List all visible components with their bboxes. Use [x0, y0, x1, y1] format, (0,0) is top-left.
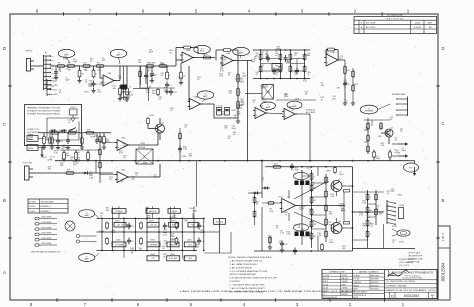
ground — [280, 248, 284, 253]
resistor R26 — [99, 135, 102, 143]
node 2 AMP — [233, 47, 250, 55]
node 9 AMP — [79, 254, 95, 262]
pot box C43 .02 — [147, 222, 159, 227]
ground — [268, 245, 272, 250]
pa mid column — [311, 170, 313, 248]
resistor R24 — [87, 151, 90, 161]
svg-text:CR14: CR14 — [47, 159, 52, 161]
svg-text:CR48: CR48 — [181, 156, 186, 158]
capacitor C12 — [144, 73, 153, 80]
capacitor C16 — [95, 137, 104, 144]
svg-text:R1-R79: R1-R79 — [323, 278, 329, 280]
wire drop x58 — [57, 133, 59, 138]
resistor R54 — [272, 164, 282, 169]
capacitor C10 — [197, 238, 206, 245]
wire tone in leader — [95, 161, 99, 219]
wire U4 out — [201, 103, 214, 105]
diode D3 — [59, 129, 67, 132]
ground — [165, 89, 169, 94]
reverb return arrows — [392, 143, 398, 145]
svg-text:MUSICAL INSTRUMENTS: MUSICAL INSTRUMENTS — [393, 271, 433, 275]
svg-text:.03: .03 — [394, 139, 397, 141]
svg-text:DOUBLE FOOTSWITCH POWER: DOUBLE FOOTSWITCH POWER — [27, 111, 61, 113]
electrolytic cap dark C7 — [121, 85, 134, 98]
svg-text:REVERB (-): REVERB (-) — [41, 211, 51, 213]
svg-text:R63: R63 — [191, 225, 194, 227]
svg-text:CR52: CR52 — [177, 77, 182, 79]
wire x123 drop — [123, 66, 125, 100]
zone ticks left — [8, 86, 12, 238]
resistor R14 — [237, 73, 244, 83]
svg-text:.08: .08 — [305, 93, 308, 95]
op-amp U2A — [180, 49, 195, 63]
svg-text:WITH NO SIGNAL APPLIED.: WITH NO SIGNAL APPLIED. — [230, 273, 257, 276]
resistor R79 — [179, 132, 182, 140]
svg-text:CR32: CR32 — [140, 143, 145, 145]
svg-text:P.C. BD: P.C. BD — [354, 279, 361, 281]
ps notes text — [408, 252, 424, 264]
op-amp U1A — [101, 72, 116, 86]
pot box PULL BRT — [167, 256, 180, 261]
resistor R76 — [157, 88, 160, 96]
capacitor C20 — [284, 55, 288, 62]
svg-text:P3: P3 — [52, 65, 54, 67]
svg-text:POSITION.: POSITION. — [230, 281, 241, 283]
svg-text:OUTPUT JACK: OUTPUT JACK — [408, 252, 421, 255]
svg-text:.03: .03 — [145, 209, 148, 211]
resistor R75 — [139, 70, 142, 78]
svg-text:.02: .02 — [303, 184, 306, 186]
reverb return arrow 2 — [392, 155, 398, 157]
transistor Q2 — [385, 128, 394, 138]
svg-text:C7: C7 — [129, 87, 131, 89]
ground — [179, 80, 183, 85]
svg-text:80012584: 80012584 — [404, 294, 419, 298]
wire drop x127 — [126, 66, 128, 88]
ground — [351, 101, 355, 106]
pot box R69 — [184, 256, 196, 261]
resistor R5 — [78, 69, 85, 79]
resistor R78 — [267, 202, 275, 205]
resistor R27 — [99, 148, 102, 156]
svg-text:HAMILTON 112 PLUS AMPL,115V: HAMILTON 112 PLUS AMPL,115V — [386, 289, 437, 292]
wire tone row3 — [97, 249, 198, 251]
svg-text:J4 BLK WIRE: J4 BLK WIRE — [41, 233, 52, 235]
svg-text:VOLUME: VOLUME — [115, 244, 124, 246]
svg-text:CR24: CR24 — [399, 242, 404, 244]
svg-text:EC #1178 CONT: EC #1178 CONT — [388, 15, 404, 17]
svg-text:U3A: U3A — [226, 52, 231, 55]
svg-text:.03: .03 — [85, 82, 88, 84]
wire U5B out — [129, 176, 160, 178]
svg-text:CR46: CR46 — [149, 115, 154, 117]
svg-text:AMP: AMP — [239, 52, 244, 55]
svg-text:* DENOTES FAST-ON TERMINAL ONL: * DENOTES FAST-ON TERMINAL ONLY — [30, 251, 62, 254]
svg-text:.02: .02 — [59, 92, 62, 94]
svg-text:P7: P7 — [52, 82, 54, 84]
resistor R60 — [310, 208, 315, 217]
resistor R59 — [310, 196, 317, 205]
ps rungs — [353, 204, 377, 240]
wire mixer top — [253, 49, 310, 51]
U5 input column — [100, 133, 117, 183]
jack table — [28, 199, 68, 213]
resistor R28 — [99, 161, 102, 169]
resistor R1 — [56, 63, 66, 68]
pot box MIDDLE — [146, 209, 159, 214]
svg-text:JW: JW — [429, 27, 432, 29]
capacitor C8 — [197, 223, 204, 230]
diode D5 — [252, 191, 260, 194]
svg-text:EC #1178: EC #1178 — [366, 23, 376, 25]
svg-text:USE SPKR WITH: USE SPKR WITH — [408, 256, 423, 258]
signature scribble — [388, 270, 409, 277]
resistor R69 — [366, 193, 371, 202]
svg-text:.05: .05 — [121, 181, 124, 183]
svg-text:REVERB (+): REVERB (+) — [41, 206, 52, 208]
svg-text:C47: C47 — [151, 258, 154, 260]
svg-text:.07: .07 — [284, 214, 287, 216]
svg-text:Q1-Q6: Q1-Q6 — [323, 288, 328, 290]
svg-text:.07: .07 — [252, 102, 255, 104]
resistor R43 — [352, 84, 355, 92]
capacitor C4 — [56, 138, 63, 145]
svg-text:A: A — [3, 270, 6, 275]
svg-text:AMP: AMP — [85, 258, 90, 261]
pa extra segments — [261, 160, 353, 252]
resistor R42 — [352, 70, 355, 78]
capacitor C17 — [54, 69, 58, 76]
resistor R12 — [166, 71, 171, 81]
svg-text:BASS: BASS — [172, 210, 178, 213]
wire U7 drop — [344, 60, 346, 100]
capacitor C13 — [169, 89, 178, 96]
pot box C41 .02 — [114, 222, 126, 227]
title block parts column 2 — [353, 270, 385, 299]
svg-text:CR26: CR26 — [62, 130, 67, 132]
resistor R37 — [289, 65, 292, 73]
reverb switch box — [136, 147, 153, 164]
svg-text:AMP: AMP — [266, 106, 271, 109]
node 7 AMP — [287, 101, 302, 109]
svg-text:PANEL: PANEL — [354, 284, 359, 287]
svg-text:1N4448: 1N4448 — [342, 281, 348, 283]
bias group lower — [294, 224, 310, 236]
wire pa top rail — [265, 166, 353, 168]
pin list J column — [35, 217, 57, 247]
pa input vertical lower — [261, 207, 263, 251]
zone ticks top — [64, 12, 383, 16]
svg-text:.07: .07 — [68, 122, 71, 124]
svg-text:D: D — [391, 295, 394, 299]
svg-text:3. ALL DIODES 1N4448.: 3. ALL DIODES 1N4448. — [230, 266, 253, 269]
relay K1 — [70, 107, 78, 122]
resistor R48 — [106, 222, 109, 230]
svg-text:CR18: CR18 — [306, 167, 311, 169]
tone right extension — [204, 218, 231, 253]
ground — [80, 145, 84, 150]
svg-text:1 OF 1: 1 OF 1 — [441, 232, 445, 240]
wire eq lower — [60, 149, 100, 151]
resistor R25 — [147, 117, 150, 125]
bias group upper — [294, 172, 310, 185]
capacitor C3 — [150, 71, 157, 78]
tone aux circles — [76, 234, 96, 243]
resistor R30 — [373, 151, 376, 159]
resistor R16 — [237, 100, 244, 110]
wire pa right rail — [352, 167, 354, 251]
svg-text:GRN: GRN — [54, 94, 59, 96]
wire U5 up — [157, 133, 159, 145]
svg-text:FASTON: FASTON — [342, 290, 350, 293]
svg-text:U1-U8: U1-U8 — [323, 284, 328, 286]
op-amp U5A — [115, 137, 130, 151]
resistor R47 — [380, 122, 383, 130]
wire q6 leads — [337, 218, 353, 228]
connector ladder P1 — [44, 53, 52, 91]
resistor R55 — [253, 196, 256, 204]
resistor R57 — [310, 172, 315, 181]
svg-text:VALUES: VALUES — [342, 277, 349, 280]
wire emitter join — [343, 192, 345, 222]
svg-text:P2: P2 — [52, 61, 54, 63]
wire U7 feedback — [326, 50, 338, 61]
resistor R56 — [253, 210, 256, 218]
svg-text:CR64: CR64 — [265, 92, 270, 94]
resistor R62 — [310, 232, 317, 241]
wire cluster under U2 — [140, 66, 175, 88]
IC block pair — [217, 106, 230, 116]
wire eq lower drops — [64, 150, 88, 161]
resistor R17 — [50, 129, 60, 134]
input wire cap drop — [55, 66, 57, 70]
wire x147 drop — [147, 66, 149, 88]
footswitch jack J2 — [23, 163, 41, 181]
ground — [50, 145, 54, 150]
resistor R61 — [310, 220, 317, 229]
resistor R9 — [182, 46, 192, 49]
wire drop x80 — [79, 66, 81, 70]
wire mixer verticals — [261, 50, 305, 79]
svg-text:4. DC VOLTAGES MEASURED TO GND: 4. DC VOLTAGES MEASURED TO GND — [230, 270, 268, 273]
svg-text:J6 RED: J6 RED — [29, 206, 36, 208]
emitter resistor q6 — [344, 222, 350, 225]
ground — [91, 88, 95, 93]
preamp ladder x180 — [179, 128, 181, 161]
svg-text:WARNING: EXTERNAL FOOTSW: WARNING: EXTERNAL FOOTSW — [27, 107, 60, 110]
wire mixer bottom — [253, 78, 310, 80]
node 7 leader — [292, 109, 295, 111]
diode D2 — [49, 129, 57, 132]
resistor R15 — [237, 87, 242, 97]
wire U7 out — [338, 59, 345, 61]
ground — [56, 145, 60, 150]
svg-text:.05: .05 — [76, 154, 79, 156]
op-amp U3A — [220, 52, 235, 66]
mixer dots bottom — [266, 49, 298, 79]
svg-text:CR8: CR8 — [378, 136, 382, 138]
svg-text:B: B — [442, 198, 445, 203]
node P.S. — [404, 163, 419, 172]
pot box BASS — [168, 209, 181, 214]
svg-text:GROUND WIRE: GROUND WIRE — [41, 202, 55, 204]
resistor R10 — [202, 54, 212, 59]
wire drop x104 — [103, 133, 105, 137]
wire Q1 leads — [148, 118, 160, 140]
zone letters right — [442, 46, 445, 203]
op-amp U4A — [188, 96, 203, 110]
resistor R82 — [334, 166, 337, 174]
svg-text:CR36: CR36 — [61, 159, 66, 161]
svg-text:8 OHM: 8 OHM — [399, 205, 405, 207]
capacitor C21 — [290, 163, 294, 170]
resistor R34 — [279, 53, 282, 61]
revision table — [354, 15, 437, 34]
wire bus stubs — [374, 150, 390, 161]
resistor R31 — [389, 151, 392, 159]
mixer inner rungs — [260, 49, 306, 79]
svg-text:SPKR: SPKR — [392, 226, 398, 228]
svg-text:80012584: 80012584 — [371, 289, 379, 291]
resistor R41 — [344, 65, 351, 75]
svg-text:REVERB: REVERB — [150, 244, 159, 246]
capacitor C14 — [266, 55, 270, 62]
wire drop x93.5 — [93, 66, 95, 70]
svg-text:1. ALL RESISTORS ARE 1/4W, 5%.: 1. ALL RESISTORS ARE 1/4W, 5%. — [230, 259, 264, 262]
resistor R71 — [366, 219, 373, 228]
wire mixer out — [276, 99, 316, 101]
svg-text:P/N 80012584-001: P/N 80012584-001 — [399, 259, 414, 261]
ground — [42, 145, 46, 150]
node TO REVERB — [360, 105, 378, 114]
wire reverb leader — [378, 104, 390, 110]
svg-text:NOTES: UNLESS OTHERWISE SPECIF: NOTES: UNLESS OTHERWISE SPECIFIED: — [228, 257, 272, 259]
svg-text:.04: .04 — [344, 102, 347, 104]
svg-text:MATERIAL TOLERANCE: MATERIAL TOLERANCE — [359, 270, 379, 273]
svg-text:.06: .06 — [284, 95, 287, 97]
svg-text:R67: R67 — [188, 244, 191, 246]
node TO AUX — [194, 45, 211, 53]
svg-text:.07: .07 — [376, 208, 379, 210]
wire U6B out — [295, 113, 310, 115]
svg-text:AMP: AMP — [203, 95, 208, 98]
ground — [150, 78, 154, 83]
mixer extra rungs 2 — [261, 50, 305, 71]
svg-text:B: B — [3, 198, 6, 203]
svg-text:C9 .047: C9 .047 — [217, 106, 223, 108]
svg-text:P4: P4 — [52, 69, 54, 71]
resistor R50 — [175, 222, 178, 230]
wire y88 link — [133, 89, 149, 102]
wire x140 drop — [140, 66, 142, 85]
resistor R58 — [310, 184, 317, 193]
pot box R71 10K — [214, 218, 226, 224]
svg-text:9-28-82: 9-28-82 — [414, 27, 422, 29]
ground — [343, 101, 347, 106]
pot box MASTER — [167, 242, 179, 247]
resistor R45 — [367, 134, 370, 142]
svg-text:AMP: AMP — [116, 54, 121, 57]
svg-text:U7A: U7A — [331, 51, 336, 54]
resistor R51 — [106, 237, 109, 245]
svg-text:P/N 80012585-001: P/N 80012585-001 — [323, 297, 337, 299]
node 1 AMP — [58, 49, 75, 57]
transistor Q1 — [156, 123, 165, 134]
capacitor C6 — [127, 223, 134, 230]
resistor R3 — [82, 63, 92, 68]
resistor R67 — [325, 230, 328, 239]
svg-text:80012581: 80012581 — [371, 282, 379, 284]
wire ps top — [353, 191, 385, 193]
svg-text:.08: .08 — [386, 193, 389, 195]
svg-text:CR22: CR22 — [75, 66, 80, 68]
speaker load resistor — [399, 205, 405, 219]
switch box S1 — [262, 85, 274, 100]
tone grid junction dots — [101, 218, 204, 252]
component value labels — [42, 47, 407, 261]
svg-text:CR16: CR16 — [84, 91, 89, 93]
svg-text:.04: .04 — [233, 134, 236, 136]
wire ps bottom — [353, 248, 416, 250]
pot box VOLUME — [112, 242, 126, 247]
op-amp U7A — [324, 51, 340, 66]
svg-text:P8: P8 — [52, 86, 54, 88]
svg-text:80012580: 80012580 — [371, 279, 379, 281]
svg-text:.04: .04 — [298, 227, 301, 229]
zone numbers top — [36, 9, 410, 14]
svg-text:.02 MF: .02 MF — [342, 275, 347, 277]
svg-text:100: 100 — [130, 95, 133, 97]
wire U1A input — [99, 66, 101, 78]
svg-text:4558: 4558 — [342, 284, 346, 286]
wire drop x44 — [43, 133, 45, 137]
resistor R74 — [375, 208, 378, 217]
node 3 leader — [240, 56, 241, 59]
bus extra dots — [111, 160, 369, 162]
drawing number strip — [438, 226, 450, 300]
bus junction dots — [63, 160, 353, 162]
svg-text:J2 BLK WIRE: J2 BLK WIRE — [41, 222, 52, 224]
warning exit wire — [41, 146, 43, 151]
svg-text:CR56: CR56 — [99, 231, 104, 233]
svg-text:120V: 120V — [28, 139, 33, 141]
svg-text:80012584: 80012584 — [440, 262, 445, 281]
svg-text:CR40: CR40 — [150, 75, 155, 77]
svg-text:LOC. 4 OF 4: LOC. 4 OF 4 — [399, 265, 409, 267]
wire input bus — [50, 65, 176, 67]
resistor R81 — [158, 63, 168, 68]
input ladder pin text — [52, 56, 54, 88]
wire drop x152 — [151, 66, 153, 71]
notes block — [228, 257, 278, 294]
wire tone row1 — [97, 217, 204, 219]
svg-text:MIDDLE: MIDDLE — [149, 211, 157, 213]
reverb tank bracket — [392, 93, 408, 116]
capacitor C22 — [293, 248, 297, 255]
svg-text:R71 10K: R71 10K — [216, 221, 224, 223]
capacitor C15 — [295, 68, 299, 75]
wire tone feed vertical — [196, 161, 198, 207]
svg-text:T1: T1 — [323, 294, 325, 296]
wire q5 leads — [337, 186, 353, 196]
svg-text:J5 BLK WIRE: J5 BLK WIRE — [41, 238, 52, 240]
node 5 AMP — [110, 49, 127, 57]
speaker connector ladder — [387, 200, 396, 225]
connector ladder P2 — [47, 79, 58, 96]
wire to U7 — [252, 60, 325, 62]
svg-text:CONNECTOR: CONNECTOR — [27, 129, 39, 131]
reverb drive cluster — [364, 118, 390, 154]
